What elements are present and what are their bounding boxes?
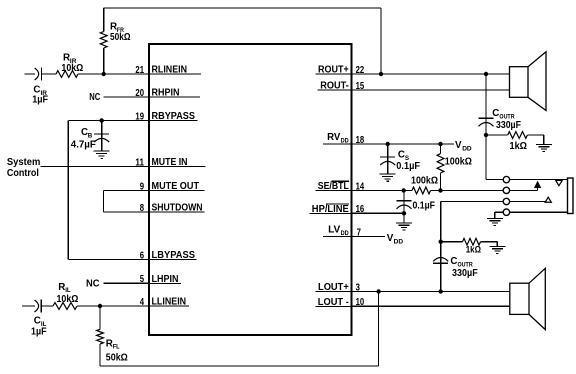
svg-text:ROUT-: ROUT- xyxy=(320,81,349,92)
svg-text:B: B xyxy=(88,132,93,139)
svg-text:HP/LINE: HP/LINE xyxy=(312,204,349,215)
svg-text:330µF: 330µF xyxy=(496,120,521,131)
svg-text:C: C xyxy=(34,316,41,327)
svg-text:50kΩ: 50kΩ xyxy=(106,353,128,364)
svg-text:V: V xyxy=(455,140,462,151)
svg-text:LOUT+: LOUT+ xyxy=(318,282,349,293)
svg-text:100kΩ: 100kΩ xyxy=(411,176,438,187)
svg-text:DD: DD xyxy=(341,137,349,144)
svg-text:0.1µF: 0.1µF xyxy=(396,161,420,172)
svg-text:DD: DD xyxy=(394,238,404,245)
svg-text:1kΩ: 1kΩ xyxy=(466,243,482,254)
svg-text:10kΩ: 10kΩ xyxy=(61,63,83,74)
svg-text:10kΩ: 10kΩ xyxy=(57,294,79,305)
svg-text:FL: FL xyxy=(113,344,120,351)
svg-text:330µF: 330µF xyxy=(452,268,478,279)
svg-text:C: C xyxy=(450,256,457,267)
svg-text:MUTE IN: MUTE IN xyxy=(152,157,188,168)
svg-text:System: System xyxy=(7,157,41,168)
svg-text:RV: RV xyxy=(327,132,341,143)
svg-text:LLINEIN: LLINEIN xyxy=(152,297,187,308)
svg-text:RHPIN: RHPIN xyxy=(152,88,180,99)
svg-text:RLINEIN: RLINEIN xyxy=(152,65,188,76)
svg-text:LV: LV xyxy=(328,224,341,235)
svg-text:0.1µF: 0.1µF xyxy=(413,200,436,211)
svg-text:NC: NC xyxy=(89,92,100,103)
svg-text:C: C xyxy=(492,108,499,119)
svg-text:LHPIN: LHPIN xyxy=(152,274,179,285)
svg-text:DD: DD xyxy=(462,146,472,153)
svg-text:100kΩ: 100kΩ xyxy=(445,157,472,168)
svg-text:SHUTDOWN: SHUTDOWN xyxy=(152,203,203,214)
svg-text:4.7µF: 4.7µF xyxy=(71,139,96,150)
svg-text:LOUT -: LOUT - xyxy=(318,297,349,308)
svg-text:RBYPASS: RBYPASS xyxy=(152,111,196,122)
svg-text:1µF: 1µF xyxy=(32,95,48,106)
svg-text:1kΩ: 1kΩ xyxy=(510,141,528,152)
svg-text:SE/BTL: SE/BTL xyxy=(318,181,349,192)
svg-text:ROUT+: ROUT+ xyxy=(318,65,349,76)
svg-text:NC: NC xyxy=(86,278,100,289)
svg-text:1µF: 1µF xyxy=(31,327,47,338)
svg-text:DD: DD xyxy=(341,230,349,237)
svg-text:50kΩ: 50kΩ xyxy=(110,32,131,43)
svg-text:Control: Control xyxy=(7,168,39,179)
svg-text:LBYPASS: LBYPASS xyxy=(152,250,196,261)
svg-text:MUTE OUT: MUTE OUT xyxy=(152,181,200,192)
